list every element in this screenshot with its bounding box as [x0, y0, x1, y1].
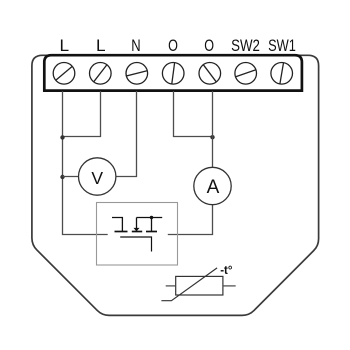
terminal screw N — [126, 63, 148, 85]
svg-text:V: V — [91, 168, 103, 188]
wire O1 down and right to O2 wire — [174, 91, 213, 137]
thermistor RT1 right lead — [223, 285, 236, 287]
svg-text:SW1: SW1 — [268, 37, 296, 55]
terminal screw SW2 — [235, 63, 257, 85]
terminal screw O2 — [199, 63, 221, 85]
wire voltmeter left terminal — [63, 176, 79, 178]
terminal screw L1 — [53, 63, 75, 85]
MOSFET Q1 channel bar 2 — [132, 231, 142, 233]
junction node voltmeter tap — [60, 175, 64, 179]
svg-text:A: A — [207, 177, 220, 198]
switch module box — [97, 203, 178, 266]
device enclosure outline — [32, 55, 319, 315]
wire L2 down and left to L1 wire — [63, 91, 101, 137]
MOSFET gate line — [120, 237, 151, 252]
MOSFET Q1 drain top rail — [137, 217, 163, 219]
svg-text:O: O — [168, 37, 178, 55]
svg-text:O: O — [204, 37, 214, 55]
voltmeter V — [79, 158, 116, 195]
MOSFET Q1 channel bar 1 — [115, 231, 128, 233]
junction node O1/O2 — [210, 135, 214, 139]
wire O2 down to ammeter top — [212, 91, 214, 168]
thermistor RT1 slope stroke — [161, 268, 217, 301]
terminal screw SW1 — [271, 63, 293, 85]
wire N down to voltmeter right terminal — [116, 91, 137, 177]
MOSFET junction dot — [150, 216, 153, 219]
wire L1 down to switch left lead — [63, 91, 108, 235]
MOSFET Q1 body arrow — [136, 218, 138, 229]
MOSFET drain tick — [151, 218, 153, 232]
MOSFET Q1 source bend — [112, 218, 122, 232]
wire ammeter bottom to switch right lead — [168, 205, 213, 235]
ammeter A — [194, 167, 231, 204]
svg-text:SW2: SW2 — [231, 37, 260, 55]
terminal block — [44, 55, 302, 90]
svg-text:-t°: -t° — [220, 265, 233, 277]
svg-text:N: N — [131, 37, 140, 55]
junction node L1/L2 — [60, 135, 64, 139]
terminal screw L2 — [90, 63, 112, 85]
svg-text:L: L — [60, 37, 70, 55]
MOSFET Q1 channel bar 3 — [146, 231, 157, 233]
terminal screw O1 — [162, 63, 184, 85]
svg-text:L: L — [96, 37, 106, 55]
thermistor RT1 body — [176, 276, 223, 295]
thermistor RT1 left lead — [166, 285, 176, 287]
